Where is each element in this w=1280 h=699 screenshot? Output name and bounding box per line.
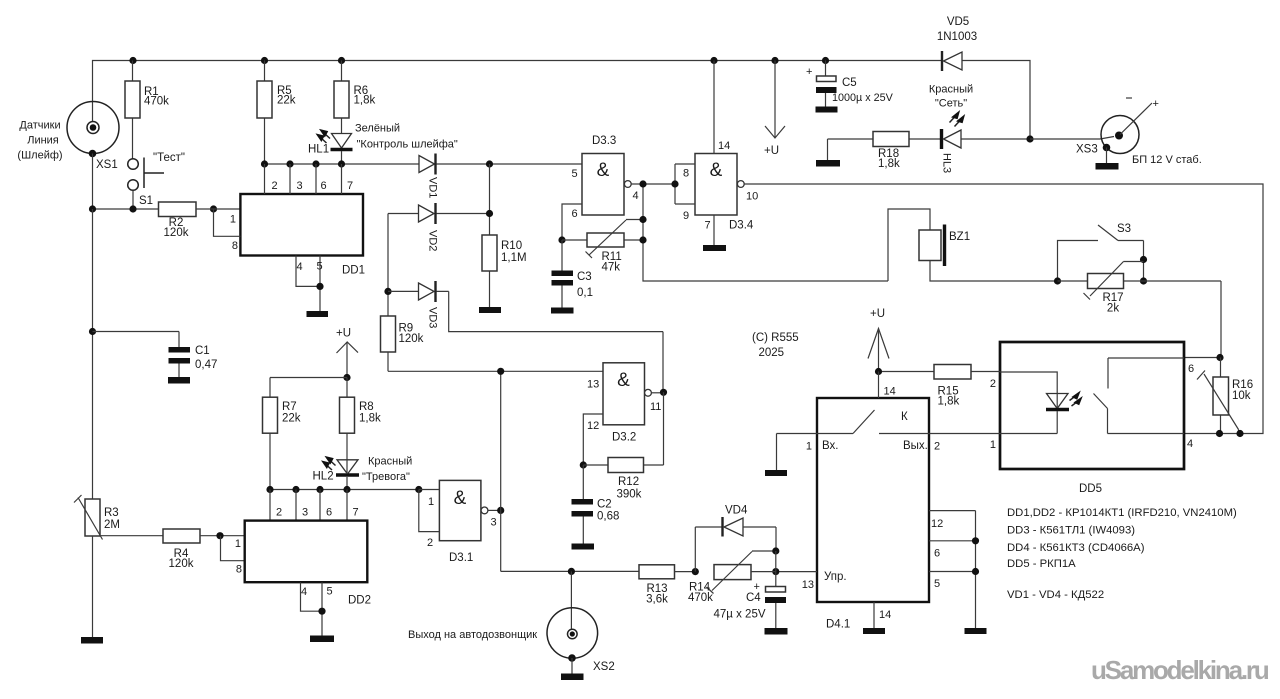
pin 13 D4.1 <box>776 572 817 591</box>
ground C1 <box>168 377 190 384</box>
D4.1 internal contact <box>817 410 929 434</box>
svg-text:D3.3: D3.3 <box>592 135 616 147</box>
pins 4 5 DD1 <box>296 256 324 312</box>
capacitor C5 electrolytic <box>806 61 894 107</box>
svg-text:3: 3 <box>297 180 303 192</box>
svg-text:470k: 470k <box>144 96 169 108</box>
svg-text:&: & <box>617 370 630 391</box>
ground C4 <box>765 628 788 635</box>
wire DD5 pin4 row <box>1216 430 1244 437</box>
svg-text:DD1: DD1 <box>342 265 365 277</box>
svg-text:1: 1 <box>990 439 996 451</box>
svg-text:3: 3 <box>491 517 497 529</box>
connector XS2 <box>547 571 615 673</box>
svg-text:1: 1 <box>806 441 812 453</box>
gate D3.2 <box>587 363 645 444</box>
ground R10 <box>479 307 501 313</box>
svg-text:5: 5 <box>327 586 333 598</box>
svg-text:1N1003: 1N1003 <box>937 31 977 43</box>
LED HL2 red <box>336 460 359 490</box>
IC DD1 <box>240 194 365 277</box>
svg-text:&: & <box>597 160 610 181</box>
resistor R12 <box>583 392 663 500</box>
svg-text:4: 4 <box>1187 438 1193 450</box>
wire vertical x500 <box>500 371 502 571</box>
svg-text:R12: R12 <box>618 476 639 488</box>
wire D3.3 out <box>631 183 672 185</box>
svg-text:1,8k: 1,8k <box>359 413 381 425</box>
svg-text:VD1 - VD4 - КД522: VD1 - VD4 - КД522 <box>1007 589 1104 601</box>
resistor R6 <box>334 61 375 134</box>
svg-text:12: 12 <box>931 518 943 530</box>
svg-text:5: 5 <box>934 578 940 590</box>
label Зелёный Контроль шлейфа <box>355 123 458 151</box>
wire R9 bottom to D3.2 pin13 <box>388 352 603 371</box>
diode VD5 <box>937 16 977 71</box>
svg-text:22k: 22k <box>282 413 301 425</box>
DD5 internal LED <box>1000 372 1069 434</box>
resistor R18 <box>828 132 942 171</box>
svg-text:C2: C2 <box>597 499 612 511</box>
power +U down arrow top <box>764 61 785 158</box>
LED HL3 arrows <box>950 112 964 127</box>
svg-text:9: 9 <box>683 210 689 222</box>
resistor R7 <box>263 397 301 489</box>
resistor R10 <box>482 164 527 307</box>
ground D4.1 pin1 <box>765 470 787 476</box>
pins 12 6 5 D4.1 <box>929 511 979 628</box>
IC DD2 <box>245 521 371 607</box>
svg-text:0,1: 0,1 <box>577 287 593 299</box>
capacitor C2 <box>572 465 620 544</box>
svg-text:D3.1: D3.1 <box>449 552 473 564</box>
svg-text:7: 7 <box>353 507 359 519</box>
svg-text:11: 11 <box>650 401 661 413</box>
gate D3.4 <box>683 140 754 232</box>
svg-text:(C) R555: (C) R555 <box>752 332 799 344</box>
svg-text:10: 10 <box>746 191 758 203</box>
svg-text:S1: S1 <box>139 195 153 207</box>
wire bus y164 <box>265 163 420 165</box>
svg-text:1: 1 <box>235 538 241 550</box>
resistor R9 <box>381 316 424 352</box>
wire DD5 pin6 row <box>1184 357 1221 359</box>
svg-text:8: 8 <box>683 168 689 180</box>
pin 1 DD1 <box>214 209 241 236</box>
svg-text:VD5: VD5 <box>947 16 969 28</box>
connector XS3 <box>1030 98 1159 163</box>
svg-text:R3: R3 <box>104 507 119 519</box>
wire vertical x643 to BZ1 row <box>643 184 888 281</box>
wire D3.4 out long <box>744 184 1263 434</box>
pins 4 5 DD2 <box>301 582 333 635</box>
wire left column down <box>92 209 94 499</box>
svg-text:БП 12 V стаб.: БП 12 V стаб. <box>1132 154 1202 166</box>
diode VD2 <box>388 203 490 251</box>
svg-text:5: 5 <box>572 168 578 180</box>
ground C3 <box>551 308 574 314</box>
DD5 LED arrows <box>1070 392 1082 406</box>
ground DD1 <box>307 311 329 317</box>
svg-text:VD2: VD2 <box>427 230 439 251</box>
svg-text:DD3 - К561ТЛ1 (IW4093): DD3 - К561ТЛ1 (IW4093) <box>1007 525 1135 537</box>
svg-text:DD5: DD5 <box>1079 483 1102 495</box>
svg-text:0,68: 0,68 <box>597 511 619 523</box>
power +U up arrow R7R8 <box>336 328 358 378</box>
LED HL1 arrows <box>317 130 330 143</box>
wire D3.4 pin14 <box>713 61 715 154</box>
wire D3.3 pin6 <box>562 204 582 240</box>
svg-text:VD1: VD1 <box>427 177 439 198</box>
svg-text:C5: C5 <box>842 77 857 89</box>
svg-text:"Контроль шлейфа": "Контроль шлейфа" <box>357 139 458 151</box>
svg-text:Датчики: Датчики <box>19 120 60 132</box>
svg-text:2: 2 <box>272 180 278 192</box>
svg-text:C3: C3 <box>577 271 592 283</box>
bubble D3.3 output <box>624 181 631 188</box>
wire R3 to ground <box>92 536 94 637</box>
svg-text:HL1: HL1 <box>308 144 329 156</box>
svg-text:6: 6 <box>934 548 940 560</box>
svg-text:2: 2 <box>934 441 940 453</box>
DD5 internal switch <box>1094 358 1185 434</box>
svg-text:D3.4: D3.4 <box>729 220 754 232</box>
pins 2 3 6 7 DD1 <box>265 164 354 194</box>
svg-text:Красный: Красный <box>368 456 412 468</box>
pin 14 D4.1 bottom <box>874 602 891 628</box>
svg-text:8: 8 <box>232 240 238 252</box>
pin 2 D4.1 wire to DD5 <box>929 434 1000 453</box>
svg-text:Выход на автодозвонщик: Выход на автодозвонщик <box>408 629 537 641</box>
switch S1 Тест <box>128 152 185 209</box>
svg-text:120k: 120k <box>164 227 189 239</box>
svg-text:14: 14 <box>884 386 896 398</box>
node HL3-XS3 <box>1026 135 1033 142</box>
wire main bottom row <box>501 570 639 572</box>
diode VD3 <box>388 281 663 392</box>
svg-text:47k: 47k <box>602 262 621 274</box>
wire D3.2 out <box>650 393 664 413</box>
svg-text:S3: S3 <box>1117 223 1131 235</box>
svg-text:120k: 120k <box>399 333 424 345</box>
svg-text:10k: 10k <box>1232 390 1251 402</box>
svg-text:VD4: VD4 <box>725 505 748 517</box>
svg-text:1: 1 <box>230 214 236 226</box>
label Красный Сеть <box>929 84 973 110</box>
pin 14 D4.1 top <box>879 372 896 399</box>
power +U up arrow D4.1 <box>868 308 889 372</box>
svg-text:"Сеть": "Сеть" <box>935 98 967 110</box>
nodes R14 wiper C4 <box>772 547 779 575</box>
svg-text:DD5 - РКП1А: DD5 - РКП1А <box>1007 558 1076 570</box>
svg-text:1000µ x 25V: 1000µ x 25V <box>832 92 894 104</box>
capacitor C1 <box>93 332 218 378</box>
resistor R2 <box>159 202 241 239</box>
svg-text:"Тревога": "Тревога" <box>362 471 410 483</box>
svg-text:&: & <box>454 488 467 509</box>
label Красный Тревога <box>362 456 412 484</box>
svg-text:XS3: XS3 <box>1076 144 1098 156</box>
svg-text:1: 1 <box>428 496 434 508</box>
LED HL3 red <box>941 129 1031 173</box>
gate D3.3 <box>572 135 625 220</box>
svg-text:1,8k: 1,8k <box>354 95 376 107</box>
capacitor C3 <box>552 240 594 308</box>
wire HL2 bus y489 <box>270 489 419 491</box>
label parts list <box>1007 507 1237 601</box>
wire top supply bus <box>93 61 1031 140</box>
svg-text:DD1,DD2 - КР1014КТ1 (IRFD210,: DD1,DD2 - КР1014КТ1 (IRFD210, VN2410M) <box>1007 507 1237 519</box>
pins 2 3 6 7 DD2 <box>270 490 359 521</box>
wire D3.4 input bracket <box>675 164 695 204</box>
svg-text:2025: 2025 <box>759 347 785 359</box>
svg-text:2: 2 <box>427 537 433 549</box>
resistor R13 <box>639 565 695 606</box>
svg-text:R10: R10 <box>501 240 522 252</box>
svg-text:R8: R8 <box>359 401 374 413</box>
svg-text:4: 4 <box>633 190 639 202</box>
node top bus junctions <box>129 57 829 64</box>
svg-text:0,47: 0,47 <box>195 359 217 371</box>
svg-text:6: 6 <box>321 180 327 192</box>
svg-text:13: 13 <box>802 579 814 591</box>
svg-text:D4.1: D4.1 <box>826 619 850 631</box>
svg-text:(Шлейф): (Шлейф) <box>17 150 62 162</box>
resistor R5 <box>257 61 296 165</box>
svg-text:Зелёный: Зелёный <box>355 123 400 135</box>
wire D3.4 pin7 <box>713 215 715 245</box>
buzzer BZ1 <box>888 209 1058 281</box>
node VD1-R10-D3.3 <box>486 160 493 167</box>
svg-text:22k: 22k <box>277 95 296 107</box>
svg-text:3: 3 <box>302 507 308 519</box>
svg-text:5: 5 <box>317 261 323 273</box>
svg-text:390k: 390k <box>617 489 642 501</box>
svg-text:6: 6 <box>326 507 332 519</box>
svg-text:C4: C4 <box>746 592 761 604</box>
svg-text:"Тест": "Тест" <box>153 152 185 164</box>
diode VD1 <box>419 154 582 199</box>
switch S3 <box>1058 223 1144 281</box>
wire XS1 sleeve down <box>92 154 94 210</box>
wire D3.2 pin12 <box>583 414 603 465</box>
svg-text:7: 7 <box>347 180 353 192</box>
pin 1 D4.1 <box>777 434 818 471</box>
svg-text:1,8k: 1,8k <box>878 158 900 170</box>
resistor R3 (variable 2M) <box>74 495 120 540</box>
svg-text:К: К <box>901 411 908 423</box>
svg-text:13: 13 <box>587 379 599 391</box>
svg-text:HL3: HL3 <box>941 153 953 173</box>
svg-text:2M: 2M <box>104 519 120 531</box>
svg-text:XS2: XS2 <box>593 661 615 673</box>
svg-text:DD2: DD2 <box>348 595 371 607</box>
svg-text:+U: +U <box>764 145 779 157</box>
svg-text:BZ1: BZ1 <box>949 231 970 243</box>
gate D3.1 <box>439 480 481 564</box>
wire row y209 <box>93 208 159 210</box>
svg-text:4: 4 <box>301 586 307 598</box>
resistor R8 <box>340 397 381 460</box>
resistor R16 variable <box>1197 358 1253 434</box>
svg-text:Вых.: Вых. <box>903 440 928 452</box>
ground D4.1 pin14 <box>863 628 885 634</box>
wire wiper to pin13 row <box>751 551 776 572</box>
ground XS2 <box>561 674 584 681</box>
svg-text:Упр.: Упр. <box>824 571 847 583</box>
svg-text:+U: +U <box>870 308 885 320</box>
wire D3.1 out <box>488 510 501 528</box>
LED HL2 arrows <box>323 457 336 470</box>
svg-text:HL2: HL2 <box>313 471 334 483</box>
resistor R1 <box>125 61 169 159</box>
svg-text:C1: C1 <box>195 345 210 357</box>
svg-text:D3.2: D3.2 <box>612 432 636 444</box>
label Датчики Линия (Шлейф) <box>17 120 62 162</box>
bubble D3.1 output <box>481 507 488 514</box>
svg-text:uSamodelkina.ru: uSamodelkina.ru <box>1091 655 1269 685</box>
wire D3.1 inputs <box>419 490 440 550</box>
capacitor C4 electrolytic <box>714 572 787 628</box>
svg-text:+: + <box>1153 98 1159 110</box>
svg-text:7: 7 <box>705 220 711 232</box>
svg-text:VD3: VD3 <box>427 307 439 328</box>
svg-text:&: & <box>710 160 723 181</box>
svg-text:Линия: Линия <box>27 135 59 147</box>
svg-text:12: 12 <box>587 420 599 432</box>
svg-text:6: 6 <box>1188 363 1194 375</box>
svg-text:8: 8 <box>236 564 242 576</box>
node D3.1 out <box>497 507 504 514</box>
IC D4.1 switch <box>817 398 929 631</box>
node R13-R14 <box>692 568 699 575</box>
svg-text:2: 2 <box>990 378 996 390</box>
svg-text:2: 2 <box>276 507 282 519</box>
svg-text:14: 14 <box>718 140 730 152</box>
D4.1 labels <box>822 440 928 583</box>
ground XS3 <box>1096 163 1119 170</box>
resistor R14 variable <box>688 551 776 604</box>
bubble D3.4 output <box>737 181 744 188</box>
resistor R15 <box>879 365 1001 408</box>
node R4-DD2 <box>216 532 223 539</box>
svg-text:2k: 2k <box>1107 303 1119 315</box>
ground D3.4 <box>703 245 726 251</box>
ground C5 <box>816 107 838 113</box>
resistor R11 variable <box>562 220 643 274</box>
svg-text:120k: 120k <box>169 558 194 570</box>
svg-text:R7: R7 <box>282 401 297 413</box>
svg-text:+U: +U <box>336 328 351 340</box>
svg-text:6: 6 <box>572 208 578 220</box>
resistor R4 <box>163 529 245 570</box>
svg-text:XS1: XS1 <box>96 159 118 171</box>
wire R17 row to DD5 pin6 <box>1220 281 1222 358</box>
svg-text:4: 4 <box>297 261 303 273</box>
svg-text:14: 14 <box>879 609 891 621</box>
IC DD5 optocoupler <box>1000 342 1184 495</box>
svg-text:DD4 - К561КТ3 (CD4066A): DD4 - К561КТ3 (CD4066A) <box>1007 542 1145 554</box>
svg-text:1,1M: 1,1M <box>501 252 527 264</box>
diode VD4 <box>695 505 776 572</box>
ground R3 <box>81 637 103 644</box>
bubble D3.2 output <box>645 389 652 396</box>
svg-text:3,6k: 3,6k <box>646 594 668 606</box>
ground D4.1 pins565 <box>965 628 987 634</box>
wire VD2 left vertical <box>387 214 389 317</box>
svg-text:Красный: Красный <box>929 84 973 96</box>
ground C2 <box>572 544 595 550</box>
ground DD2 <box>310 636 334 643</box>
svg-text:Вх.: Вх. <box>822 440 839 452</box>
connector XS1 <box>67 102 119 158</box>
wire DD2 pin8 link <box>221 536 245 561</box>
label copyright <box>752 332 799 359</box>
svg-text:+: + <box>806 66 812 78</box>
svg-text:1,8k: 1,8k <box>938 396 960 408</box>
ground R18 left <box>816 139 840 167</box>
svg-text:470k: 470k <box>688 592 713 604</box>
svg-text:47µ x 25V: 47µ x 25V <box>714 609 766 621</box>
resistor R17 variable <box>1058 262 1222 315</box>
wire R3 wiper to R4 <box>100 535 163 537</box>
wire R7R8 top <box>270 378 347 398</box>
LED HL1 green <box>331 134 353 165</box>
pin labels 1 8 DD2 <box>235 538 242 576</box>
